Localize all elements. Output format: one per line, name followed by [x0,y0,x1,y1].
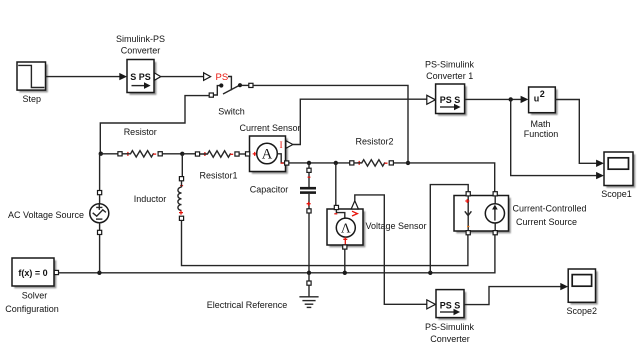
node C junction (right row) [406,161,410,165]
resistor R2 (Resistor2) [350,137,394,167]
wire current sensor output row to resistor2 [289,162,350,164]
block Scope1 [601,152,635,199]
svg-text:PS: PS [216,72,229,83]
svg-text:Switch: Switch [218,107,245,117]
current sensor block [239,123,300,174]
wire PS-Simulink Converter 1 to Math Function [465,96,529,103]
input port triangle of PS-Simulink Converter 1 [427,95,436,104]
svg-text:I: I [280,141,283,151]
svg-text:AC Voltage Source: AC Voltage Source [8,210,84,220]
wire node D to Scope1 lower input [511,99,604,179]
svg-text:Resistor2: Resistor2 [355,137,393,147]
svg-text:Capacitor: Capacitor [250,184,289,194]
resistor R1 (Resistor1) [195,151,239,181]
wire resistor to node B [162,153,182,155]
wire resistor1 to current sensor [239,153,245,155]
wire voltage sensor PS output to PS-Simulink Converter [355,195,427,304]
node B junction [180,152,184,156]
wire node B to inductor [181,154,183,177]
wire resistor2 to CCCS top right [393,163,494,192]
svg-text:PS-Simulink: PS-Simulink [425,322,475,332]
svg-text:Converter 1: Converter 1 [426,71,473,81]
svg-text:Configuration: Configuration [5,304,59,314]
block PS-Simulink Converter (bottom) [425,290,475,344]
svg-text:2: 2 [540,89,545,99]
wire PS-Simulink Converter to Scope2 [464,283,568,305]
node D junction on signal wire [509,97,513,101]
svg-text:Math: Math [530,119,550,129]
wire node B to resistor1 [182,153,195,155]
svg-text:Λ: Λ [341,221,351,236]
svg-text:PS S: PS S [440,95,461,105]
wire inductor bottom to CCCS bottom-left [182,220,468,265]
block Scope2 [567,269,598,316]
svg-text:Scope2: Scope2 [567,306,598,316]
node CCCS control junction [428,271,432,275]
block current-controlled current source [454,192,587,235]
svg-text:Step: Step [23,94,42,104]
svg-text:S PS: S PS [130,72,151,82]
wire current sensor I output to PS-Simulink Converter 1 [293,99,427,144]
wire voltage sensor top to node row [335,163,337,206]
ground electrical reference [207,273,319,310]
node A junction [99,152,103,156]
capacitor C1 [250,163,316,273]
block Simulink-PS Converter U1 [116,34,165,95]
wire voltage sensor bottom to bus [344,249,346,273]
svg-text:u: u [534,94,540,104]
block Math Function [524,87,559,139]
svg-text:Solver: Solver [22,291,48,301]
wire CCCS top-left control loop to bus [430,185,468,273]
wire switch right terminal to node C [253,85,408,162]
svg-text:f(x) = 0: f(x) = 0 [18,268,47,278]
svg-text:Current Sensor: Current Sensor [239,123,300,133]
wire bus: solver configuration to CCCS bottom-right [59,235,495,273]
node solver/AC junction [97,271,101,275]
inductor L1 [134,177,184,221]
block Step [17,62,48,104]
switch SW [209,83,253,116]
svg-text:Inductor: Inductor [134,194,167,204]
svg-text:Current-Controlled: Current-Controlled [512,204,586,214]
svg-text:Converter: Converter [430,334,470,344]
svg-text:Resistor: Resistor [124,127,157,137]
AC voltage source V1 [8,154,109,273]
wire PS (dangling physical signal) [161,72,232,90]
wire Step to Simulink-PS Converter [46,73,128,80]
svg-text:Electrical Reference: Electrical Reference [207,300,288,310]
svg-text:PS-Simulink: PS-Simulink [425,59,475,69]
node capacitor junction [307,161,311,165]
node voltage sensor top junction [334,161,338,165]
svg-text:PS S: PS S [440,300,461,310]
wire node A to resistor [101,153,118,155]
svg-text:Resistor1: Resistor1 [199,170,237,180]
block solver configuration [5,258,59,314]
node voltage sensor bottom junction [343,271,347,275]
output port triangle of Simulink-PS Converter [154,73,161,80]
svg-text:Function: Function [524,129,559,139]
svg-text:Scope1: Scope1 [601,189,632,199]
input port triangle of bottom PS-Simulink Converter [427,300,436,309]
svg-text:Simulink-PS: Simulink-PS [116,34,165,44]
svg-text:Voltage Sensor: Voltage Sensor [365,221,426,231]
block voltage sensor [327,201,427,249]
svg-text:Converter: Converter [121,46,161,56]
resistor R (Resistor) [118,127,162,157]
block PS-Simulink Converter 1 [425,59,475,116]
wire switch left terminal to node A [100,96,209,152]
svg-text:Current Source: Current Source [516,217,577,227]
svg-text:A: A [262,147,273,163]
wire Math Function to Scope1 upper input [555,100,604,168]
node ground junction [307,271,311,275]
